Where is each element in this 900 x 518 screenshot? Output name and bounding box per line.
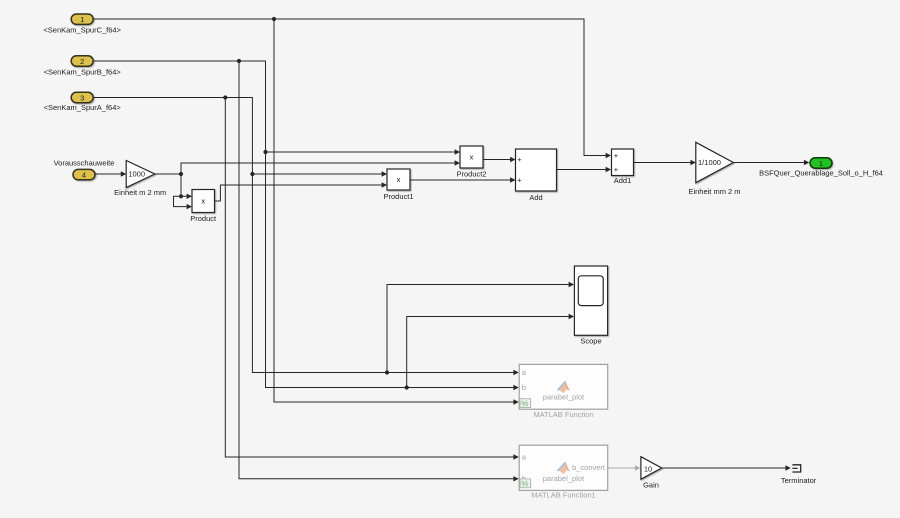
svg-text:x: x (397, 175, 401, 184)
wire inport3 to Product1 in1 and MATLAB Function a (94, 98, 514, 373)
percent icon (520, 479, 531, 488)
wire Product1 output to Add in2 (410, 179, 510, 181)
svg-text:Gain: Gain (643, 481, 659, 490)
svg-text:Terminator: Terminator (781, 476, 817, 485)
product Product2 (460, 146, 483, 168)
svg-text:<SenKam_SpurC_f64>: <SenKam_SpurC_f64> (43, 26, 121, 35)
svg-text:b_convert: b_convert (572, 463, 606, 472)
svg-text:1: 1 (819, 159, 823, 168)
MATLAB Function block (519, 364, 608, 409)
product Product1 (387, 169, 410, 190)
gain Einheit mm 2 m (1/1000) (696, 142, 734, 182)
svg-text:<SenKam_SpurB_f64>: <SenKam_SpurB_f64> (44, 68, 122, 77)
svg-text:3: 3 (80, 93, 84, 102)
svg-text:parabel_plot: parabel_plot (543, 392, 585, 401)
svg-text:4: 4 (82, 171, 86, 180)
percent icon (520, 399, 531, 408)
inport 3 (71, 92, 93, 102)
wire branch up to Scope in2 (407, 317, 569, 388)
svg-text:<SenKam_SpurA_f64>: <SenKam_SpurA_f64> (44, 103, 122, 112)
terminator Terminator (792, 465, 800, 472)
wire inport1 branch to MATLAB Function percent port (274, 19, 514, 402)
adder Add1 (612, 149, 634, 176)
MATLAB Function1 block (519, 445, 608, 490)
wire branch up to Scope in1 (387, 285, 569, 373)
wire Product2 output to Add in1 (483, 159, 510, 161)
svg-text:parabel_plot: parabel_plot (543, 474, 585, 483)
wire inport4 to gain Einheit m 2 mm (94, 173, 121, 175)
svg-text:+: + (517, 155, 522, 164)
svg-text:Add: Add (529, 193, 542, 202)
svg-text:Einheit mm 2 m: Einheit mm 2 m (688, 187, 740, 196)
wire branch to Product2 in1 (266, 151, 455, 153)
wire inport2 to Product2 in1 and MATLAB Function b (94, 61, 514, 388)
MATLAB logo (558, 381, 570, 393)
svg-text:b: b (522, 383, 526, 392)
svg-text:1000: 1000 (128, 170, 145, 179)
svg-text:MATLAB Function1: MATLAB Function1 (531, 491, 595, 500)
svg-text:+: + (517, 175, 522, 184)
adder Add (516, 149, 557, 191)
svg-text:1/1000: 1/1000 (698, 158, 721, 167)
wire Product output to Product1 in2 (215, 185, 382, 201)
wire inport3 branch to MATLAB Function1 a (225, 98, 513, 458)
wire Add output to Add1 in2 (557, 169, 607, 171)
inport 2 (71, 56, 93, 66)
wire loop to Product in2 (174, 196, 187, 206)
inport 4 (73, 169, 95, 179)
scope Scope (574, 266, 607, 335)
svg-text:+: + (614, 165, 619, 174)
wire inport2 branch to MATLAB Function1 b (239, 61, 514, 479)
svg-text:Einheit m 2 mm: Einheit m 2 mm (114, 188, 166, 197)
svg-text:Product1: Product1 (383, 192, 413, 201)
svg-text:x: x (470, 153, 474, 162)
outport 1 (green) (810, 158, 832, 168)
svg-text:x: x (201, 197, 205, 206)
node junction inport1 branch (272, 17, 276, 21)
MATLAB logo (558, 462, 570, 474)
svg-text:10: 10 (644, 464, 652, 473)
svg-text:2: 2 (80, 57, 84, 66)
wire gain1000 branch down to Product in1 (181, 174, 187, 196)
svg-text:Scope: Scope (580, 337, 601, 346)
svg-text:Product2: Product2 (456, 170, 486, 179)
gain Einheit m 2 mm (1000) (126, 161, 155, 188)
product Product (192, 190, 215, 213)
svg-text:+: + (614, 151, 619, 160)
wire inport1 to Add1 in1 (94, 19, 606, 156)
wire MATLAB Function1 output to Gain (gray) (608, 467, 635, 469)
node junction on b line (405, 385, 409, 389)
svg-text:Add1: Add1 (614, 176, 632, 185)
wire branch to Product1 in1 (252, 173, 381, 175)
wire gain1000 output to Product2 in2 (155, 163, 455, 174)
wire gain 1/1000 to outport (733, 162, 804, 164)
svg-text:1: 1 (80, 15, 84, 24)
gain Gain (10) (641, 457, 662, 480)
wire Add1 output to gain 1/1000 (634, 162, 691, 164)
svg-text:BSFQuer_Querablage_Soll_o_H_f6: BSFQuer_Querablage_Soll_o_H_f64 (759, 169, 883, 178)
svg-text:MATLAB Function: MATLAB Function (533, 410, 593, 419)
wire Gain output to Terminator (662, 467, 786, 469)
svg-text:Vorausschauweite: Vorausschauweite (54, 158, 115, 167)
svg-text:Product: Product (190, 214, 217, 223)
inport 1 (71, 14, 93, 24)
node junction on a line (385, 370, 389, 374)
